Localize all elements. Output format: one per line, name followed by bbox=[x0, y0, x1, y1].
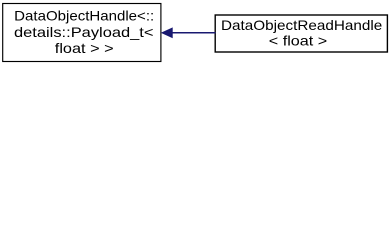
svg-text:float > >: float > > bbox=[55, 40, 114, 56]
node box: base class DataObjectHandle<::details::Payload_t< float > > bbox=[3, 4, 161, 62]
svg-text:DataObjectHandle<::: DataObjectHandle<:: bbox=[14, 8, 154, 24]
svg-text:DataObjectReadHandle: DataObjectReadHandle bbox=[221, 17, 382, 33]
svg-text:< float >: < float > bbox=[269, 33, 327, 49]
inheritance arrow shaft (derived to base) bbox=[172, 32, 216, 34]
svg-text:details::Payload_t<: details::Payload_t< bbox=[14, 24, 154, 40]
node box: derived class DataObjectReadHandle< float > bbox=[215, 15, 387, 52]
inheritance arrowhead bbox=[162, 28, 172, 37]
